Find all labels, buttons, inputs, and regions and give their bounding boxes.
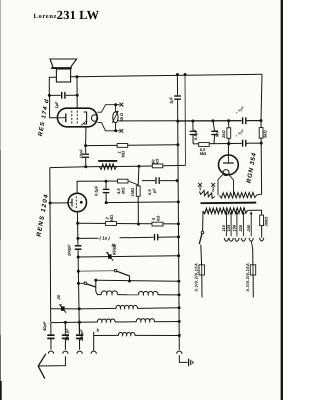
wire plug 240 stem bbox=[251, 241, 253, 248]
wire L5 to V1 bbox=[154, 321, 179, 323]
node rens rail row2 bbox=[78, 307, 81, 310]
node rens rail 1a bbox=[76, 237, 79, 240]
wire c13 bottom stub bbox=[192, 135, 194, 144]
wire 250pF to socket bbox=[79, 338, 81, 349]
wire pot stem top bbox=[114, 105, 116, 112]
loudspeaker cone bbox=[50, 59, 77, 67]
node V1 pot rail bbox=[176, 120, 179, 123]
svg-text:kΩ: kΩ bbox=[155, 215, 160, 221]
node V1 row4 bbox=[178, 334, 181, 337]
resistor R3 60kohm bbox=[152, 164, 163, 168]
terminal x heater left bbox=[198, 183, 202, 187]
svg-text:( 1a ): ( 1a ) bbox=[100, 236, 111, 241]
wire bus V2 bbox=[184, 74, 187, 165]
node V1 row2 bbox=[178, 306, 181, 309]
fuse F1 bbox=[199, 265, 204, 275]
inductor L5 bbox=[136, 319, 154, 322]
svg-text:0,5µF: 0,5µF bbox=[94, 185, 99, 196]
node 10nF mid rail bbox=[84, 165, 87, 168]
node V2 top rail bbox=[184, 73, 187, 76]
wire r8 top stub bbox=[228, 121, 230, 128]
capacitor C6 200pF bbox=[75, 245, 82, 250]
wire pot output rail bbox=[118, 120, 261, 122]
node grid leak bottom bbox=[105, 201, 108, 204]
wire grid leak bottom row bbox=[106, 201, 178, 204]
wire r8 bottom stub bbox=[228, 138, 230, 143]
tube U1 RES174d envelope bbox=[57, 108, 97, 127]
resistor R8 2kohm bbox=[227, 128, 231, 139]
svg-text:2kΩ: 2kΩ bbox=[221, 130, 226, 139]
svg-text:125: 125 bbox=[226, 224, 231, 231]
wire U3 filament right lead bbox=[229, 175, 234, 196]
potentiometer R1 60ohm body bbox=[113, 112, 118, 123]
wire pot stem bottom bbox=[114, 123, 116, 131]
wire V1 below socket bbox=[179, 355, 187, 362]
left page edge line bbox=[0, 0, 2, 400]
wire top supply rail bbox=[77, 74, 262, 76]
resistor R4 4.5Mohm bbox=[118, 179, 129, 183]
loudspeaker bar bbox=[51, 67, 72, 69]
capacitor C4 0.5uF bbox=[155, 177, 160, 184]
tube U1 grid dashes bbox=[71, 111, 73, 125]
socket fork 220 bbox=[241, 238, 245, 241]
ground symbol bbox=[188, 359, 190, 367]
wire C3 stub top bbox=[105, 181, 107, 189]
capacitor C11 250pF bbox=[76, 334, 83, 339]
node anode junction bbox=[84, 144, 87, 147]
inductor L3 bbox=[116, 305, 137, 308]
node pot top bbox=[114, 103, 117, 106]
wire 300ohm to fork bbox=[261, 226, 263, 238]
node V1 row3 bbox=[178, 320, 181, 323]
wire right rail drop bbox=[261, 74, 262, 120]
node V1 c4 bbox=[176, 179, 179, 182]
node V1 row1 bbox=[178, 293, 181, 296]
wire speaker right lead bbox=[71, 76, 77, 78]
wire RES grid top lead bbox=[76, 77, 78, 108]
wire S3 feed bbox=[78, 282, 84, 284]
svg-text:MΩ: MΩ bbox=[109, 214, 114, 221]
wire 1a row left bbox=[78, 237, 99, 239]
wire fuse2 to mains bbox=[252, 275, 254, 298]
svg-text:220: 220 bbox=[238, 224, 243, 232]
wire row2 left bbox=[51, 308, 79, 310]
terminal x filament top bbox=[120, 103, 124, 107]
terminal x heater right bbox=[211, 183, 215, 187]
wire plug 220 down bbox=[252, 248, 254, 265]
node row3 rens rail bbox=[78, 321, 81, 324]
capacitor C16 4uF lower bbox=[242, 140, 247, 147]
capacitor C5 on 1a row bbox=[154, 234, 159, 240]
node r8 bottom bbox=[227, 142, 230, 145]
fuse F2 bbox=[250, 265, 255, 275]
wire L6 to V1 bbox=[135, 334, 180, 336]
switch S3 contact bbox=[84, 282, 87, 285]
switch S2 blade bbox=[117, 271, 130, 276]
wire heater to 5k bbox=[257, 143, 262, 195]
node grid leak top bbox=[105, 180, 108, 183]
wire RENS anode rail bbox=[77, 212, 79, 335]
choke L7 core bar bbox=[98, 160, 117, 162]
inductor L2 bbox=[138, 291, 157, 294]
wire 1a row right bbox=[158, 236, 179, 238]
wire switch to fuse1 bbox=[200, 245, 203, 265]
wire U1 filament bottom lead bbox=[97, 123, 115, 131]
transformer tap 220 bbox=[242, 213, 244, 237]
tube U3 anode stem bbox=[227, 155, 229, 163]
wire R4 to 1Mohm box bbox=[128, 181, 138, 185]
inductor L6 bbox=[118, 333, 134, 336]
svg-text:0,5µF: 0,5µF bbox=[193, 129, 198, 140]
wire pot top x-stub bbox=[116, 104, 120, 106]
wire speaker left lead bbox=[49, 77, 56, 95]
socket fork 300 bbox=[260, 238, 264, 241]
wire U1 anode down bbox=[85, 127, 87, 146]
wire mid rail bbox=[86, 165, 186, 166]
node V1 top rail bbox=[176, 73, 179, 76]
svg-text:1µF: 1µF bbox=[169, 96, 174, 104]
wire 250pF stub bbox=[78, 322, 80, 334]
node RGN anode bbox=[227, 142, 230, 145]
tube U1 grid2 dashes bbox=[76, 111, 78, 125]
tube U1 anode bbox=[84, 112, 87, 124]
capacitor C9 40pF bbox=[47, 334, 54, 339]
socket antenna a3 bbox=[77, 351, 82, 354]
wire switch2 feed bbox=[78, 270, 114, 273]
transformer tap 125 bbox=[230, 213, 232, 237]
wire RGN anode lead bbox=[227, 144, 229, 155]
node V1 2M row bbox=[177, 222, 180, 225]
resistor R11 300ohm bbox=[260, 215, 264, 226]
svg-text:300Ω: 300Ω bbox=[264, 216, 269, 227]
wire U3 filament left lead bbox=[218, 174, 223, 195]
socket b jack bbox=[91, 351, 96, 354]
wire S2 to row bbox=[129, 276, 131, 281]
left page edge dark mid bbox=[0, 150, 2, 240]
svg-text:240: 240 bbox=[246, 224, 251, 232]
capacitor C15 4uF upper bbox=[242, 117, 247, 124]
transformer tap 240 bbox=[250, 213, 252, 237]
switch S1 blade bbox=[199, 234, 202, 244]
loudspeaker body bbox=[56, 69, 70, 82]
node c13 top bbox=[191, 120, 194, 123]
trimmer capacitor C8 20pF bbox=[61, 306, 65, 310]
socket antenna a2 bbox=[63, 351, 68, 354]
wire left rail bbox=[49, 168, 52, 323]
trimmer capacitor C7 650pF bbox=[108, 254, 112, 258]
potentiometer R1 arrow bbox=[112, 111, 118, 123]
node band row left bbox=[94, 279, 97, 282]
wire x stub right bbox=[212, 187, 214, 193]
transformer heater winding bbox=[220, 192, 257, 198]
svg-text:0,3/0,2/0,15A: 0,3/0,2/0,15A bbox=[245, 263, 250, 292]
wire RES cathode to left rail bbox=[50, 95, 58, 117]
svg-text:40pF: 40pF bbox=[42, 321, 47, 332]
wire r10 top stub bbox=[260, 121, 262, 128]
node c15 right bbox=[260, 119, 263, 122]
wire 160pF to socket bbox=[64, 338, 66, 349]
svg-text:MΩ: MΩ bbox=[120, 187, 125, 194]
node rens rail S3 bbox=[77, 282, 80, 285]
choke L7 winding bbox=[99, 164, 116, 170]
wire c14 top stub bbox=[213, 121, 215, 131]
svg-text:60 Ω: 60 Ω bbox=[119, 112, 124, 122]
wire 1Mohm line bbox=[86, 144, 178, 147]
wire pot bottom x-stub bbox=[116, 130, 120, 132]
wire r10 bottom stub bbox=[260, 138, 262, 143]
tube U2 cathode bbox=[71, 199, 73, 207]
wire R5 top stub bbox=[137, 166, 140, 186]
wire 650pF row bbox=[78, 256, 178, 257]
terminal x filament bottom bbox=[120, 129, 124, 133]
svg-text:5kΩ: 5kΩ bbox=[263, 130, 268, 138]
switch S1 contact bbox=[201, 231, 204, 234]
node c16 right bbox=[260, 142, 263, 145]
svg-text:1µF: 1µF bbox=[54, 101, 59, 109]
wire mid rail left bbox=[50, 166, 86, 169]
svg-text:200pF: 200pF bbox=[67, 244, 72, 257]
wire U1 filament top lead bbox=[97, 105, 115, 113]
svg-text:MΩ: MΩ bbox=[200, 151, 207, 156]
node c14 top bbox=[212, 119, 215, 122]
tube U1 anode diag bbox=[81, 121, 87, 126]
capacitor C10 160pF bbox=[62, 334, 69, 339]
node 1uF right bbox=[76, 94, 79, 97]
tube U1 cathode lead bbox=[57, 117, 65, 119]
tube U3 anode bar bbox=[223, 162, 234, 164]
node speaker-right junction bbox=[76, 75, 79, 78]
wire row2 mid bbox=[79, 307, 116, 310]
wire S3 down to L1 bbox=[96, 280, 102, 294]
wire L3 to V1 bbox=[137, 307, 179, 310]
svg-text:20: 20 bbox=[56, 294, 61, 300]
svg-text:10nF: 10nF bbox=[78, 149, 83, 159]
capacitor C14 5nF bbox=[211, 130, 218, 135]
svg-text:0,3/0,2/0,15A: 0,3/0,2/0,15A bbox=[193, 263, 198, 292]
socket fork 150 bbox=[235, 238, 239, 241]
wire R5 bottom stub bbox=[137, 196, 139, 224]
right page edge bar bbox=[281, 0, 283, 400]
svg-text:b: b bbox=[97, 328, 100, 333]
resistor R10 5kohm bbox=[259, 128, 263, 139]
resistor R2 1Mohm bbox=[117, 144, 128, 148]
node V1 1a row bbox=[177, 235, 180, 238]
wire 1a row mid bbox=[120, 236, 155, 239]
capacitor C1 1uF bbox=[61, 92, 66, 99]
capacitor C3 0.5uF bbox=[103, 189, 110, 194]
svg-text:MΩ: MΩ bbox=[121, 150, 126, 157]
node V1 band row bbox=[177, 280, 180, 283]
wire 40pF stub bbox=[50, 323, 52, 335]
svg-text:150: 150 bbox=[232, 224, 237, 231]
wire primary right to 300ohm bbox=[248, 210, 262, 215]
wire row4 bbox=[94, 334, 119, 336]
wire primary left down bbox=[202, 211, 204, 231]
socket chassis bbox=[177, 351, 182, 354]
node left rail RENS lead bbox=[49, 202, 52, 205]
svg-text:231 LW: 231 LW bbox=[57, 8, 100, 22]
resistor R9 0.5Mohm bbox=[199, 143, 210, 147]
tube U1 pinch circle bbox=[91, 115, 97, 121]
node 138 2M row bbox=[137, 223, 140, 226]
wire c14 bottom stub bbox=[213, 135, 216, 144]
wire L1-L2 bbox=[117, 294, 138, 296]
wire x stub left bbox=[199, 187, 201, 191]
transformer tap 150 bbox=[236, 213, 238, 237]
wire L2 to V1 bbox=[158, 294, 179, 296]
wire y143 right bbox=[246, 142, 261, 144]
transformer tap 110 bbox=[225, 213, 227, 237]
resistor R6 2Mohm bbox=[106, 222, 117, 226]
node V1 grid leak bbox=[177, 200, 180, 203]
wire y143 row bbox=[193, 142, 243, 145]
svg-text:Lorenz: Lorenz bbox=[34, 13, 58, 20]
switch S3 blade bbox=[87, 284, 96, 287]
node rens rail sw2 bbox=[77, 270, 80, 273]
capacitor C12 1uF on V1 bbox=[174, 95, 181, 100]
wire pot rail right segment bbox=[178, 120, 261, 123]
antenna symbol bbox=[38, 354, 46, 379]
transformer core bar bbox=[201, 202, 257, 205]
tube U3 RGN354 envelope bbox=[219, 155, 239, 175]
resistor R5 1Mohm vertical bbox=[136, 186, 140, 197]
tube U2 RENS1204 envelope bbox=[68, 193, 86, 211]
tube U2 grid dashes bbox=[75, 197, 77, 209]
wire RENS grid line bbox=[77, 181, 128, 194]
wire 10nF to mid rail bbox=[85, 157, 87, 166]
node rens rail 650 bbox=[77, 256, 80, 259]
svg-text:µF: µF bbox=[152, 188, 157, 194]
wire C3 stub bottom bbox=[105, 193, 107, 203]
socket antenna a1 bbox=[48, 351, 53, 354]
svg-text:650pF: 650pF bbox=[112, 243, 117, 255]
left page edge black corner bbox=[0, 381, 2, 400]
node S2 bottom bbox=[128, 280, 131, 283]
node V1 650 row bbox=[177, 254, 180, 257]
wire 0.5uF row bbox=[142, 180, 177, 182]
wire fuse1 to mains bbox=[201, 275, 203, 298]
wire 1uF link bbox=[49, 94, 77, 96]
node rens rail 2M bbox=[76, 222, 79, 225]
svg-text:1MΩ: 1MΩ bbox=[130, 187, 135, 197]
resistor R7 5kohm bbox=[152, 222, 163, 226]
wire antenna lead bbox=[39, 356, 66, 366]
socket fork 110 bbox=[224, 238, 228, 241]
wire anode to 10nF bbox=[85, 146, 87, 154]
socket fork 240 bbox=[249, 238, 253, 241]
node V1 1Mohm line bbox=[176, 143, 179, 146]
node mid rail 138.9 bbox=[137, 165, 140, 168]
tube U3 filament circle bbox=[223, 170, 229, 176]
tube U2 anode dot bbox=[80, 201, 83, 204]
capacitor C13 0.5uF bbox=[190, 130, 197, 135]
heater balance winding bbox=[200, 191, 215, 199]
wire 160pF stub bbox=[64, 322, 66, 334]
inductor L4 bbox=[97, 319, 115, 322]
svg-text:5nF: 5nF bbox=[215, 129, 220, 137]
node row3 160pF bbox=[64, 321, 67, 324]
wire RENS cathode lead bbox=[50, 202, 68, 204]
inductor L1 bbox=[101, 291, 117, 295]
wire c13 top stub bbox=[192, 121, 194, 131]
socket fork 125 bbox=[229, 238, 233, 241]
left page edge dark bottom bbox=[0, 335, 1, 381]
wire 40pF to socket bbox=[50, 338, 52, 349]
capacitor C2 10nF bbox=[82, 153, 89, 158]
svg-text:kΩ: kΩ bbox=[155, 158, 160, 164]
tube U1 cathode bar bbox=[65, 113, 67, 122]
wire row4 stub-left bbox=[93, 332, 95, 351]
transformer primary winding bbox=[203, 208, 248, 214]
node r8 top bbox=[227, 119, 230, 122]
wire 2M row bbox=[78, 222, 179, 225]
wire band row bbox=[96, 280, 179, 281]
node pot bottom bbox=[114, 129, 117, 132]
wire L4-L5 bbox=[115, 321, 136, 323]
wire bus V1 bbox=[177, 75, 179, 351]
switch S2 contact bbox=[114, 269, 117, 272]
wire row3 bbox=[51, 321, 98, 324]
node 1uF left bbox=[48, 94, 51, 97]
